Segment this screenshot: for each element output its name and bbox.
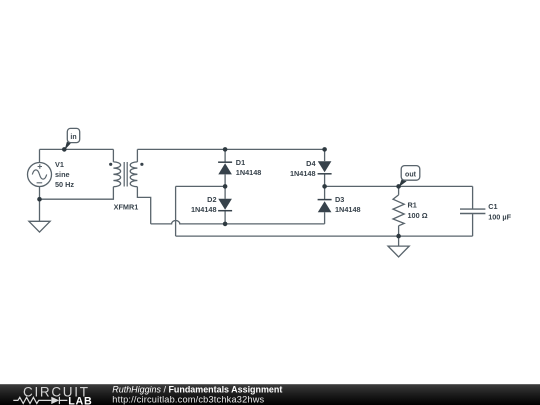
wire mid-left rail bbox=[176, 185, 226, 187]
svg-text:1N4148: 1N4148 bbox=[236, 168, 262, 177]
wire bottom rail bbox=[176, 235, 473, 237]
wire primary bottom return bbox=[40, 187, 114, 200]
wire primary top stem bbox=[112, 149, 114, 162]
svg-text:100 µF: 100 µF bbox=[488, 212, 511, 221]
junction out/R1 node bbox=[396, 184, 401, 189]
svg-text:1N4148: 1N4148 bbox=[335, 205, 361, 214]
wire D4 stems bbox=[324, 149, 326, 186]
footer bar bbox=[0, 384, 540, 405]
capacitor C1 bbox=[460, 209, 485, 213]
phase dot secondary bbox=[140, 163, 143, 166]
wire R1 stems bbox=[398, 186, 400, 236]
svg-text:D4: D4 bbox=[306, 159, 316, 168]
core bbox=[124, 162, 127, 187]
svg-text:http://circuitlab.com/cb3tchka: http://circuitlab.com/cb3tchka32hws bbox=[112, 394, 264, 404]
wire mid-right rail bbox=[325, 185, 473, 187]
wire R1 ground stem bbox=[398, 236, 400, 246]
label D2 bbox=[191, 195, 217, 214]
transformer XFMR1 bbox=[113, 162, 137, 187]
svg-text:100 Ω: 100 Ω bbox=[408, 211, 428, 220]
label C1 value bbox=[488, 202, 511, 221]
ground (below V1) bbox=[29, 221, 50, 232]
svg-text:in: in bbox=[70, 134, 76, 141]
diode D4 bbox=[318, 161, 332, 174]
svg-text:sine: sine bbox=[55, 170, 70, 179]
voltage source V1 bbox=[28, 163, 52, 187]
svg-text:R1: R1 bbox=[408, 201, 417, 210]
label V1 value bbox=[55, 160, 74, 189]
label D4 bbox=[290, 159, 317, 178]
svg-text:1N4148: 1N4148 bbox=[290, 169, 316, 178]
junction D1 top bbox=[223, 147, 228, 152]
wire V1 bottom stem to ground bbox=[39, 186, 41, 221]
wire lower rail with hop over vertical link bbox=[151, 220, 325, 223]
junction in-flag node bbox=[62, 147, 67, 152]
svg-text:D1: D1 bbox=[236, 158, 245, 167]
wire C1 stems bbox=[472, 186, 474, 236]
wire top rail left (V1 to primary) bbox=[40, 148, 114, 150]
wire D2 stems bbox=[224, 186, 226, 224]
svg-text:50 Hz: 50 Hz bbox=[55, 180, 74, 189]
diode D3 bbox=[318, 200, 332, 213]
wire secondary top stem bbox=[136, 149, 138, 162]
svg-text:C1: C1 bbox=[488, 202, 497, 211]
node flag out bbox=[399, 166, 420, 187]
svg-text:D3: D3 bbox=[335, 195, 344, 204]
svg-text:LAB: LAB bbox=[68, 396, 92, 405]
diode D1 bbox=[218, 162, 232, 174]
junction R1 bottom bbox=[396, 234, 401, 239]
footer logo schematic motif (resistor + diode) bbox=[13, 397, 67, 404]
junction V1-ground node bbox=[37, 197, 42, 202]
svg-text:V1: V1 bbox=[55, 160, 64, 169]
label R1 value bbox=[408, 201, 428, 221]
ground (below R1) bbox=[388, 246, 409, 257]
junction D3/D4 node bbox=[322, 184, 327, 189]
svg-text:RuthHiggins / Fundamentals Ass: RuthHiggins / Fundamentals Assignment bbox=[112, 385, 282, 395]
wire D3 stems bbox=[324, 186, 326, 224]
junction D1/D2 node bbox=[223, 184, 228, 189]
junction D4 top bbox=[322, 147, 327, 152]
svg-text:D2: D2 bbox=[207, 195, 216, 204]
secondary winding bbox=[130, 162, 137, 187]
resistor R1 bbox=[393, 195, 404, 226]
label D3 bbox=[335, 195, 361, 214]
svg-text:XFMR1: XFMR1 bbox=[114, 203, 139, 212]
primary winding bbox=[113, 162, 120, 187]
wire top rail right (secondary to D1/D4) bbox=[137, 148, 324, 150]
phase dot primary bbox=[109, 163, 112, 166]
svg-text:out: out bbox=[405, 171, 417, 178]
svg-text:1N4148: 1N4148 bbox=[191, 205, 217, 214]
junction D2 bottom bbox=[223, 222, 228, 227]
wire V1 top stem bbox=[39, 149, 41, 162]
label D1 bbox=[236, 158, 262, 177]
wire D1 stems bbox=[224, 149, 226, 186]
wire vertical link bbox=[175, 186, 177, 236]
wire secondary bottom run bbox=[137, 187, 150, 224]
node flag in bbox=[65, 128, 80, 150]
diode D2 bbox=[218, 199, 232, 211]
